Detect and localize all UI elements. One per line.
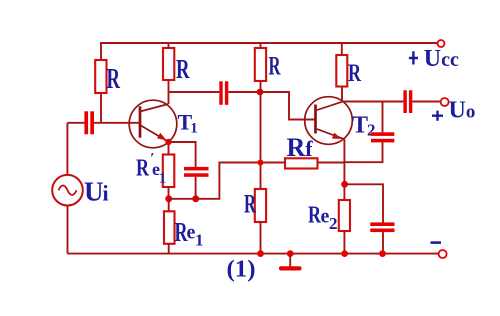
resistor R2 (T1 collector) <box>163 48 174 80</box>
capacitor C6 (output) <box>403 90 412 113</box>
wire R2 stub top <box>168 43 170 48</box>
node B junction <box>165 195 172 202</box>
resistor R4 (T2 collector) <box>336 55 347 87</box>
node rail Re2 <box>341 250 348 257</box>
wire output <box>342 101 403 103</box>
wire C2 to node A <box>228 91 260 93</box>
wire Re1 to rail <box>168 244 170 254</box>
capacitor C3 (bypass R'e1) <box>184 167 209 177</box>
ground <box>279 254 302 271</box>
wire R1 stub top <box>100 43 102 60</box>
+Ucc terminal <box>409 40 459 72</box>
svg-text:R: R <box>176 54 190 84</box>
node E junction <box>341 181 348 188</box>
svg-text:R: R <box>269 52 281 81</box>
wire R'e1 bottom <box>168 187 170 199</box>
svg-text:Rf: Rf <box>287 133 314 162</box>
wire T2 emitter down <box>343 139 345 200</box>
wire T2 collector <box>341 87 343 102</box>
resistor R'e1 <box>163 155 175 188</box>
wire T1 collector <box>168 80 170 104</box>
resistor Re1 <box>164 211 175 244</box>
node rail ground <box>287 250 294 257</box>
minus terminal <box>431 241 447 258</box>
wire C3 bottom lead <box>195 177 197 199</box>
wire R4 stub top <box>341 43 343 55</box>
source Ui <box>52 175 83 206</box>
wire emitter to C3 <box>169 142 196 167</box>
svg-text:R: R <box>244 190 256 219</box>
wire input left <box>67 122 84 124</box>
svg-text:Ucc: Ucc <box>424 46 459 72</box>
capacitor C1 (input) <box>84 111 94 134</box>
resistor Rf <box>285 158 318 168</box>
top supply rail wire <box>100 42 438 44</box>
transistor T1 <box>129 100 177 148</box>
wire R3 down through feedback node <box>260 81 262 189</box>
wire C6 to Uo terminal <box>412 101 440 103</box>
capacitor C5 (bypass Re2) <box>370 222 394 232</box>
wire Ui top <box>66 123 68 175</box>
node T1 emitter <box>165 139 171 145</box>
node rail C5 <box>379 250 386 257</box>
wire Re2 to rail <box>343 231 345 254</box>
wire C1 to T1 base <box>94 122 140 124</box>
wire R3 stub top <box>260 43 262 48</box>
svg-text:R: R <box>348 60 362 87</box>
wire collector node to C2 <box>169 91 220 93</box>
wire C5 to rail <box>382 232 384 254</box>
bottom rail wire <box>68 253 439 255</box>
svg-text:T1: T1 <box>178 110 198 137</box>
svg-text:R: R <box>308 203 321 229</box>
svg-text:1: 1 <box>195 231 204 250</box>
svg-text:R: R <box>107 64 121 95</box>
svg-text:Ui: Ui <box>84 177 109 207</box>
svg-text:(1): (1) <box>227 257 256 283</box>
capacitor C4 <box>371 132 394 142</box>
wire C4 top lead <box>382 102 384 133</box>
wire node B to Re1 <box>168 199 170 212</box>
resistor R5 (divider lower) <box>255 189 266 222</box>
wire Rf to T2 emitter <box>318 162 345 164</box>
wire Ui bottom <box>67 206 69 254</box>
+Uo terminal <box>432 98 475 124</box>
svg-text:Uo: Uo <box>449 98 476 124</box>
transistor T2 <box>305 97 353 145</box>
resistor R1 (bias) <box>95 60 106 93</box>
resistor R3 (divider upper) <box>255 48 266 81</box>
wire C4 bottom lead <box>345 142 383 162</box>
node rail R5 <box>257 250 264 257</box>
wire T1 emitter node to R'e1 <box>168 142 170 155</box>
wire R1 to base node <box>100 93 102 123</box>
svg-text:1: 1 <box>159 171 167 187</box>
wire R5 to rail <box>260 222 262 254</box>
svg-text:R: R <box>136 156 149 182</box>
wire node E to C5 <box>345 184 383 222</box>
wire node B to feedback riser <box>169 163 285 199</box>
resistor Re2 <box>339 200 350 231</box>
capacitor C2 (coupling) <box>219 81 228 105</box>
node C junction <box>192 195 199 202</box>
node D junction <box>258 160 264 166</box>
svg-text:2: 2 <box>329 214 338 233</box>
wire node A to T2 base <box>261 92 317 120</box>
node A junction <box>257 89 264 96</box>
